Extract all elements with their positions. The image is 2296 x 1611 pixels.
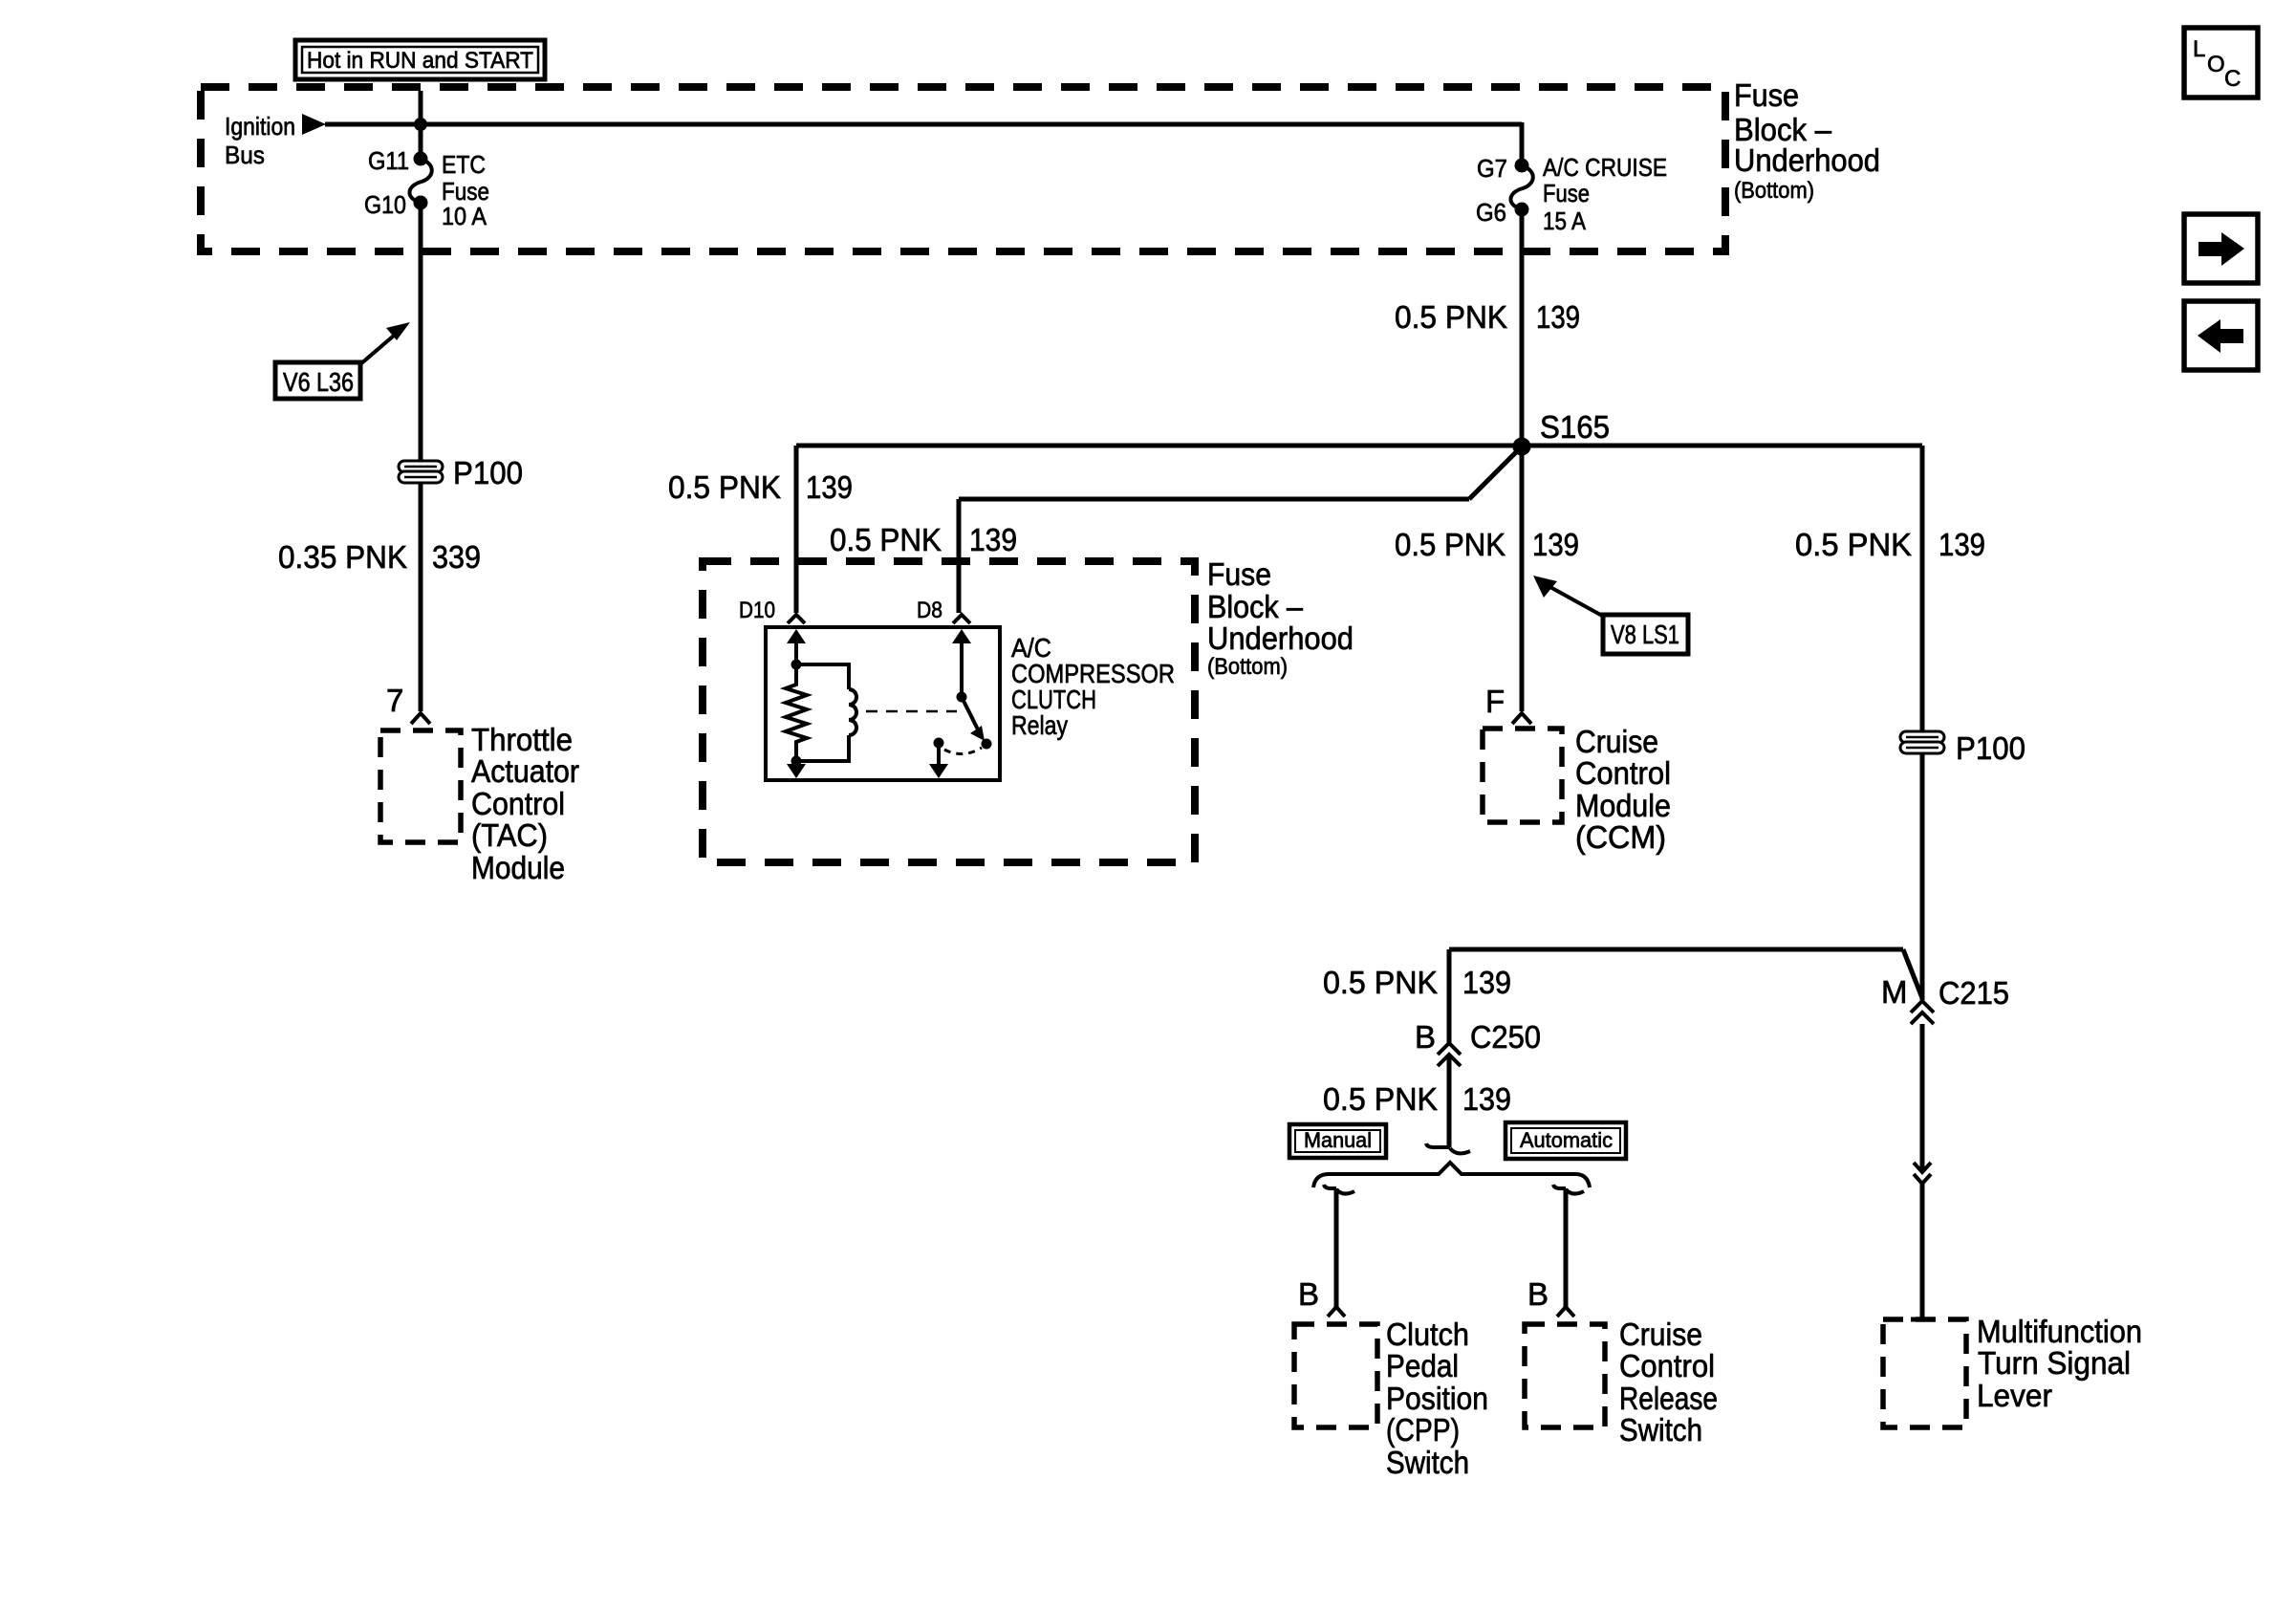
option tag box Manual xyxy=(1289,1124,1386,1158)
wire: rail corner down right branch to C215 xyxy=(1920,446,1925,1000)
CPP switch name label xyxy=(1386,1317,1488,1480)
svg-text:Cruise: Cruise xyxy=(1575,724,1658,759)
fuse F2 value label "A/C CRUISE Fuse 15 A" xyxy=(1543,153,1667,235)
terminal tee at multifunction lever xyxy=(1911,1317,1934,1322)
relay contact travel dashed arc xyxy=(944,748,982,754)
svg-text:139: 139 xyxy=(1462,1081,1511,1117)
svg-text:Automatic: Automatic xyxy=(1520,1128,1613,1152)
fuse F2 A/C CRUISE pin G7 dot xyxy=(1515,159,1529,173)
wire: D8 branch drop to relay xyxy=(957,499,962,613)
fuse F1 value label "ETC Fuse 10 A" xyxy=(442,150,489,230)
fuse F2 A/C CRUISE pin G6 dot xyxy=(1515,203,1529,217)
svg-text:Block –: Block – xyxy=(1207,589,1304,624)
ignition bus label xyxy=(225,112,295,169)
fuse block (top) name label xyxy=(1734,77,1880,204)
svg-text:Throttle: Throttle xyxy=(471,722,573,757)
wire: C250 down to splice options xyxy=(1447,1055,1452,1147)
svg-text:0.5 PNK: 0.5 PNK xyxy=(1795,527,1912,562)
svg-text:D10: D10 xyxy=(739,598,775,623)
svg-text:Control: Control xyxy=(471,786,565,821)
svg-text:Fuse: Fuse xyxy=(1207,556,1271,592)
svg-text:L: L xyxy=(2193,36,2205,62)
wire hook at top of CCR branch xyxy=(1553,1185,1584,1194)
svg-text:Release: Release xyxy=(1619,1381,1718,1416)
svg-text:Manual: Manual xyxy=(1304,1128,1372,1152)
wire: rail corner down to relay pin D10 xyxy=(794,446,799,613)
svg-text:F: F xyxy=(1485,684,1505,719)
TAC module name label xyxy=(471,722,579,885)
relay actuation dashed link (coil to switch) xyxy=(866,710,957,713)
wire: drop from dashed border to ETC fuse xyxy=(419,91,423,159)
svg-text:Switch: Switch xyxy=(1386,1445,1469,1480)
relay switch pin arrow (up) from D8 xyxy=(952,629,971,697)
wire: C215 down to inline connector xyxy=(1920,1024,1925,1172)
wire hook at top of CPP branch xyxy=(1324,1185,1354,1194)
svg-text:B: B xyxy=(1298,1276,1319,1312)
svg-text:O: O xyxy=(2207,52,2225,77)
fuse F1 ETC element (S-curve) xyxy=(409,159,431,203)
svg-text:339: 339 xyxy=(432,539,481,575)
relay switch pivot dot xyxy=(957,692,967,703)
svg-text:G10: G10 xyxy=(364,190,406,219)
wire: CPP branch drop xyxy=(1334,1188,1339,1307)
relay K1 A/C compressor clutch relay box xyxy=(766,627,1000,780)
junction: bus to ETC fuse drop xyxy=(414,118,427,131)
fuse F1 ETC pin G10 dot xyxy=(414,196,428,210)
inline connector double chevron (down) xyxy=(1914,1163,1931,1184)
svg-text:ETC: ETC xyxy=(442,150,486,179)
wire: ETC fuse output down to P100 xyxy=(419,203,423,461)
wire label 0.5 PNK | 139 (D8 branch) xyxy=(830,522,1017,557)
svg-text:Actuator: Actuator xyxy=(471,753,579,789)
wire: S165 horizontal rail xyxy=(796,444,1922,448)
relay coil-side pin arrow (up) xyxy=(787,629,806,664)
relay switch fixed contact dot and pin arrow (down) xyxy=(929,738,948,779)
svg-text:139: 139 xyxy=(1939,527,1985,562)
CCR switch name label xyxy=(1619,1317,1718,1448)
relay K1 name label xyxy=(1011,633,1175,740)
relay coil top node dot xyxy=(791,660,802,670)
svg-text:Module: Module xyxy=(471,850,565,885)
relay coil-side bottom pin arrow (down) xyxy=(787,761,806,778)
relay coil L1 (bumps) xyxy=(849,689,856,735)
svg-text:V8 LS1: V8 LS1 xyxy=(1611,620,1679,649)
svg-text:Fuse: Fuse xyxy=(1543,179,1590,207)
svg-text:Lever: Lever xyxy=(1977,1378,2052,1413)
wire label 0.35 PNK | 339 xyxy=(278,539,481,575)
wire end hook above brace xyxy=(1426,1143,1470,1153)
svg-text:0.5 PNK: 0.5 PNK xyxy=(1395,299,1507,335)
Clutch Pedal Position switch dashed box xyxy=(1294,1324,1377,1427)
wire label 0.5 PNK | 139 (above C250) xyxy=(1323,965,1511,1000)
svg-text:P100: P100 xyxy=(1956,730,2025,766)
svg-text:0.5 PNK: 0.5 PNK xyxy=(1395,527,1505,562)
svg-text:Clutch: Clutch xyxy=(1386,1317,1469,1352)
wire: D8 branch horizontal xyxy=(959,497,1469,502)
svg-text:Multifunction: Multifunction xyxy=(1977,1314,2142,1349)
svg-text:S165: S165 xyxy=(1540,409,1610,445)
wire label 0.5 PNK | 139 (CCM branch) xyxy=(1395,527,1579,562)
svg-text:A/C CRUISE: A/C CRUISE xyxy=(1543,153,1667,182)
option tag box Automatic xyxy=(1505,1122,1626,1159)
wire: ignition bus horizontal xyxy=(325,122,1522,127)
svg-text:Relay: Relay xyxy=(1011,710,1068,740)
svg-text:Turn Signal: Turn Signal xyxy=(1978,1345,2131,1381)
svg-text:Hot in RUN and START: Hot in RUN and START xyxy=(307,48,533,74)
Multifunction Turn Signal Lever dashed box xyxy=(1883,1319,1966,1427)
svg-text:G6: G6 xyxy=(1476,198,1506,227)
svg-text:0.5 PNK: 0.5 PNK xyxy=(1323,1081,1438,1117)
inline connector P100 (right) xyxy=(1900,731,1944,753)
svg-text:10 A: 10 A xyxy=(442,202,487,230)
svg-text:G11: G11 xyxy=(368,146,409,175)
svg-text:Position: Position xyxy=(1386,1381,1488,1416)
power label box "Hot in RUN and START" xyxy=(295,40,545,79)
svg-text:Module: Module xyxy=(1575,788,1671,823)
svg-text:C: C xyxy=(2224,66,2241,92)
terminal caret at CCM pin F xyxy=(1512,713,1531,724)
relay coil bottom node dot xyxy=(791,756,802,767)
inline connector P100 (left) xyxy=(399,461,443,483)
svg-text:0.5 PNK: 0.5 PNK xyxy=(830,522,942,557)
svg-text:0.5 PNK: 0.5 PNK xyxy=(668,469,781,505)
legend previous-page arrow box (left) xyxy=(2184,301,2258,370)
wire label 0.5 PNK | 139 (fuse output) xyxy=(1395,299,1580,335)
svg-text:Ignition: Ignition xyxy=(225,112,295,141)
svg-text:C215: C215 xyxy=(1939,975,2009,1011)
relay coil loop wiring xyxy=(796,664,849,761)
svg-text:Fuse: Fuse xyxy=(1734,77,1799,113)
terminal caret at relay pin D10 xyxy=(788,615,805,623)
wire: left branch down to C250 xyxy=(1447,949,1452,1043)
svg-text:Control: Control xyxy=(1575,755,1671,791)
svg-text:M: M xyxy=(1881,974,1908,1010)
wire label 0.5 PNK | 139 (right branch) xyxy=(1795,527,1985,562)
svg-text:0.35 PNK: 0.35 PNK xyxy=(278,539,407,575)
connector C215 double chevron xyxy=(1911,1001,1934,1024)
svg-text:(Bottom): (Bottom) xyxy=(1734,178,1814,204)
wire: connector down to turn signal lever xyxy=(1920,1184,1925,1319)
terminal caret at relay pin D8 xyxy=(953,615,970,623)
wire: branch tee horizontal toward C250 xyxy=(1449,947,1903,952)
relay resistor (zigzag) xyxy=(786,664,807,761)
wire: A/C CRUISE fuse output down to splice S165 xyxy=(1520,209,1525,446)
svg-text:(Bottom): (Bottom) xyxy=(1207,654,1288,680)
fuse block underhood (top) dashed boundary xyxy=(201,87,1725,251)
svg-text:139: 139 xyxy=(1532,527,1579,562)
Cruise Control Module dashed box xyxy=(1483,729,1562,822)
Throttle Actuator Control module dashed box xyxy=(380,730,461,842)
terminal caret at CCR switch xyxy=(1557,1307,1574,1317)
svg-text:139: 139 xyxy=(969,522,1017,557)
splice option brace xyxy=(1313,1163,1590,1187)
wire label 0.5 PNK | 139 (D10 branch) xyxy=(668,469,853,505)
fuse block (lower) name label xyxy=(1207,556,1354,680)
svg-text:139: 139 xyxy=(1536,299,1580,335)
svg-text:Control: Control xyxy=(1619,1348,1715,1383)
svg-text:Switch: Switch xyxy=(1619,1412,1702,1448)
engine variant tag V6 L36 with arrow xyxy=(275,322,410,399)
svg-text:Underhood: Underhood xyxy=(1207,620,1354,656)
MTS lever name label xyxy=(1977,1314,2142,1413)
fuse F1 ETC pin G11 dot xyxy=(414,152,428,166)
svg-text:(CCM): (CCM) xyxy=(1575,819,1666,855)
svg-text:139: 139 xyxy=(1462,965,1511,1000)
wire: CCR branch drop xyxy=(1564,1188,1569,1307)
svg-text:Underhood: Underhood xyxy=(1734,142,1880,178)
relay switch moving contact arm with arrowhead xyxy=(962,697,992,750)
svg-text:(CPP): (CPP) xyxy=(1386,1412,1460,1448)
svg-text:P100: P100 xyxy=(453,455,523,490)
svg-text:Pedal: Pedal xyxy=(1386,1348,1459,1383)
svg-text:Cruise: Cruise xyxy=(1619,1317,1702,1352)
fuse block underhood (lower) dashed boundary xyxy=(703,561,1195,862)
svg-text:B: B xyxy=(1415,1019,1436,1055)
wire: S165 down to CCM pin F xyxy=(1520,446,1525,711)
fuse F2 A/C CRUISE element (S-curve) xyxy=(1510,165,1532,209)
wire label 0.5 PNK | 139 (below C250) xyxy=(1323,1081,1511,1117)
svg-text:(TAC): (TAC) xyxy=(471,817,548,853)
svg-text:C250: C250 xyxy=(1470,1019,1541,1055)
svg-text:D8: D8 xyxy=(917,598,942,623)
node S165 splice xyxy=(1513,409,1611,456)
ignition bus arrow xyxy=(302,114,326,135)
wire: bus east end drop to A/C CRUISE fuse xyxy=(1520,122,1525,165)
connector C250 double chevron xyxy=(1438,1043,1461,1066)
svg-text:7: 7 xyxy=(386,683,403,718)
wire: diagonal into C215 xyxy=(1903,949,1922,998)
terminal caret at CPP switch xyxy=(1328,1307,1345,1317)
terminal caret at TAC pin 7 xyxy=(411,713,430,724)
legend next-page arrow box (right) xyxy=(2184,214,2258,283)
CCM module name label xyxy=(1575,724,1671,855)
legend LOC box xyxy=(2184,28,2258,98)
svg-text:15 A: 15 A xyxy=(1543,207,1587,235)
svg-text:V6 L36: V6 L36 xyxy=(283,367,354,397)
svg-text:139: 139 xyxy=(806,469,853,505)
Cruise Control Release switch dashed box xyxy=(1525,1324,1605,1427)
svg-text:0.5 PNK: 0.5 PNK xyxy=(1323,965,1438,1000)
wire: diagonal from S165 to D8 branch xyxy=(1469,446,1522,499)
svg-text:B: B xyxy=(1527,1276,1549,1312)
svg-text:G7: G7 xyxy=(1477,154,1507,183)
wire: P100 down to TAC module xyxy=(419,483,423,711)
svg-text:Bus: Bus xyxy=(225,141,265,169)
engine variant tag V8 LS1 with arrow xyxy=(1533,576,1688,654)
